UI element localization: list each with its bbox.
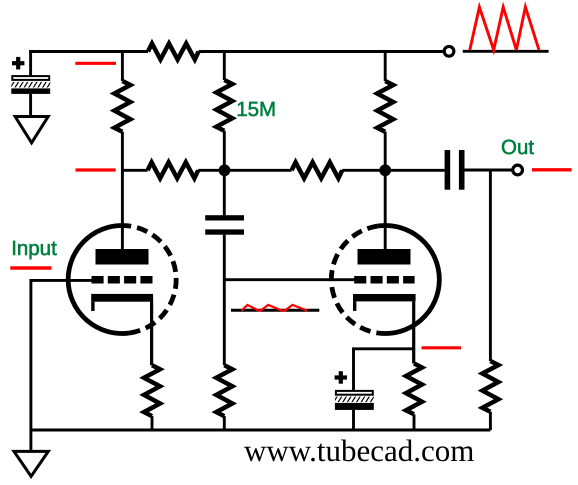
annotation: red underline Input: [10, 266, 51, 269]
svg-text:Out: Out: [501, 136, 534, 159]
wire: V2 cathode tee to battery B2: [354, 349, 415, 391]
wire: middle column, capacitor down to resistor: [223, 235, 226, 366]
wire: bottom rail to ground G2: [29, 430, 32, 452]
ground G2 (bottom left): [14, 451, 48, 476]
wire: bottom ground rail: [31, 429, 491, 432]
resistor R7 (second rail right): [292, 162, 343, 178]
wire: V2 cathode resistor to bottom rail: [413, 414, 416, 430]
battery B2 plates: [335, 391, 374, 410]
wire: left column top: [121, 52, 124, 82]
waveform baseline (top right): [463, 50, 549, 53]
triode V2 grid: [354, 276, 414, 284]
triode V2 envelope solid arc: [378, 225, 439, 333]
svg-text:15M: 15M: [236, 98, 276, 121]
wire: input to grid of V1: [31, 280, 93, 430]
terminal: B+ output: [444, 46, 454, 56]
triode V1 envelope dashed arc: [130, 226, 177, 333]
annotation: residual sawtooth (red): [241, 305, 307, 311]
wire: B+ top rail right segment: [199, 50, 444, 53]
wire: middle resistor to bottom rail: [223, 416, 226, 430]
triode V1 grid: [92, 276, 153, 284]
resistor R9 (V1 cathode): [144, 365, 160, 416]
wire: grid feed to V2: [224, 278, 355, 281]
wire: output cap to terminal: [465, 169, 513, 172]
wire: battery B1 to ground: [29, 94, 32, 118]
annotation: red dash upper left: [75, 62, 116, 65]
wire: V1 cathode leg: [150, 302, 153, 366]
wire: load column down: [489, 170, 492, 361]
resistor R8 (far right load): [482, 361, 498, 412]
battery B2 plus sign: [335, 371, 347, 384]
triode V2 plate: [358, 249, 411, 265]
resistor R5 (right column): [377, 81, 393, 132]
wire: middle column top: [223, 52, 226, 81]
wire: battery B2 to bottom rail: [352, 410, 355, 430]
wire: top rail to battery B1: [29, 52, 32, 76]
annotation: sine baseline: [231, 309, 319, 312]
terminal: Out: [513, 165, 523, 175]
resistor R1 (top rail): [148, 44, 199, 60]
resistor R4 (middle bottom): [216, 365, 232, 416]
triode V1 cathode: [91, 294, 153, 311]
annotation: red dash mid left: [76, 168, 116, 171]
wire: left column to plate of V1: [121, 132, 124, 250]
battery B1 plus sign: [12, 57, 24, 70]
node: junction middle column / second rail: [219, 164, 231, 176]
triode V1 envelope solid arc: [68, 225, 129, 333]
svg-text:Input: Input: [11, 237, 57, 260]
wire: second rail to output cap: [342, 169, 444, 172]
triode V1 plate: [96, 249, 149, 265]
wire: second rail between resistors: [198, 169, 291, 172]
triode V2 cathode: [353, 294, 416, 311]
resistor R3 15M: [216, 80, 232, 131]
svg-text:www.tubecad.com: www.tubecad.com: [244, 433, 474, 468]
annotation: red dash at V2 cathode: [422, 346, 462, 349]
battery B1 plates: [11, 76, 50, 94]
triode V2 envelope dashed arc: [331, 226, 378, 333]
wire: right column to plate of V2: [384, 132, 387, 250]
annotation: red dash at Out: [532, 168, 572, 171]
ground G1 (top left): [15, 117, 48, 143]
wire: right column top: [384, 52, 387, 82]
resistor R10 (V2 cathode): [406, 364, 422, 415]
resistor R2 (left column): [114, 81, 130, 132]
node: junction right column / second rail: [379, 164, 391, 176]
wire: load resistor to bottom rail: [489, 412, 492, 430]
wire: V1 cathode resistor to bottom rail: [151, 416, 154, 430]
triangle waveform (red): [470, 7, 539, 50]
capacitor C2 (output): [445, 150, 465, 190]
capacitor C1 (middle): [205, 215, 244, 235]
wire: middle column, resistor to capacitor: [223, 131, 226, 215]
wire: V2 cathode leg: [412, 301, 415, 363]
wire: B+ top rail left segment: [29, 50, 148, 53]
wire: second rail from left column: [122, 169, 147, 172]
resistor R6 (second rail left): [148, 162, 199, 178]
